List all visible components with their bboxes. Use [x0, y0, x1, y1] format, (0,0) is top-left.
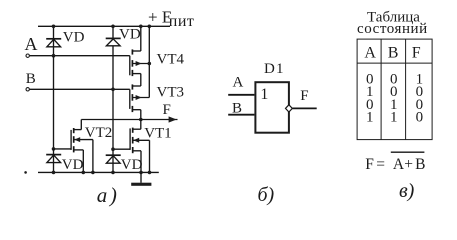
- +E power rail: [38, 25, 170, 27]
- wire A branch down to VT2 gate: [53, 56, 55, 149]
- junction VT4 substrate to +E branch: [148, 62, 152, 66]
- svg-text:VT2: VT2: [85, 125, 113, 141]
- transistor VT4 (PMOS, gate=A): [130, 26, 150, 86]
- svg-text:VT4: VT4: [157, 52, 185, 68]
- svg-text:VD: VD: [119, 26, 141, 42]
- node F output wire with arrow: [81, 119, 177, 121]
- diode VD3 (gnd to input A line): [46, 149, 61, 173]
- svg-text:+: +: [404, 156, 413, 173]
- svg-text:VT3: VT3: [157, 85, 185, 101]
- wire input B: [228, 114, 254, 116]
- svg-text:VT1: VT1: [144, 126, 172, 142]
- ground rail: [38, 171, 159, 173]
- ground symbol: [140, 172, 142, 182]
- junction VT2 gate with A branch: [52, 147, 56, 151]
- junction node A with VD branch: [52, 54, 56, 58]
- formula F = not(A+B): [365, 156, 425, 173]
- svg-text:B: B: [232, 100, 242, 116]
- svg-text:=: =: [376, 156, 385, 173]
- node A input terminal: [26, 54, 29, 57]
- svg-text:B: B: [388, 45, 399, 62]
- svg-text:б): б): [258, 184, 275, 206]
- diode VD2 (input B to +E): [106, 26, 121, 155]
- svg-text:A: A: [393, 156, 405, 173]
- svg-text:в): в): [399, 180, 415, 202]
- wire input A: [228, 94, 254, 96]
- table data: [366, 72, 423, 126]
- truth table grid: [357, 39, 432, 140]
- svg-text:состояний: состояний: [357, 21, 428, 37]
- svg-text:F: F: [163, 102, 171, 118]
- svg-text:1: 1: [260, 86, 268, 103]
- svg-text:A: A: [364, 45, 376, 62]
- svg-text:VD: VD: [63, 29, 85, 45]
- wire output F: [292, 107, 316, 109]
- svg-text:F: F: [365, 156, 374, 173]
- junction node F (VT3 source / VT1 drain): [139, 118, 143, 122]
- node B input terminal: [26, 88, 29, 91]
- svg-text:B: B: [415, 156, 425, 173]
- svg-text:A: A: [25, 34, 38, 54]
- inversion bubble: [286, 105, 293, 112]
- svg-text:0: 0: [416, 110, 424, 126]
- transistor VT2 (NMOS, gate=A): [54, 120, 93, 173]
- junction VT1 gate with B branch: [111, 147, 115, 151]
- svg-text:VD: VD: [62, 157, 84, 173]
- svg-text:B: B: [26, 71, 36, 87]
- wire input B to VT3 gate: [30, 88, 130, 90]
- logic element D1 (NOR gate box): [255, 82, 289, 133]
- svg-text:а): а): [97, 183, 120, 207]
- diode VD4 (gnd to input B line): [106, 155, 121, 172]
- svg-text:F: F: [412, 45, 421, 62]
- diode VD1 (input A to +E): [46, 26, 61, 55]
- svg-text:D1: D1: [264, 61, 285, 77]
- svg-text:1: 1: [366, 110, 374, 126]
- wire substrate rail to +E: [148, 26, 150, 97]
- junction dots on +E rail: [139, 25, 143, 29]
- svg-text:VD: VD: [121, 157, 143, 173]
- svg-text:1: 1: [390, 110, 398, 126]
- junction dots on ground rail: [52, 171, 56, 175]
- svg-text:F: F: [300, 88, 308, 104]
- svg-text:A: A: [233, 75, 244, 91]
- junction node B with VD branch: [111, 88, 115, 92]
- transistor VT1 (NMOS, gate=B): [113, 120, 150, 173]
- transistor VT3 (PMOS, gate=B): [130, 84, 150, 119]
- svg-text:пит: пит: [169, 13, 195, 30]
- stray dot artifact: [24, 171, 27, 174]
- wire input A to VT4 gate: [30, 55, 130, 57]
